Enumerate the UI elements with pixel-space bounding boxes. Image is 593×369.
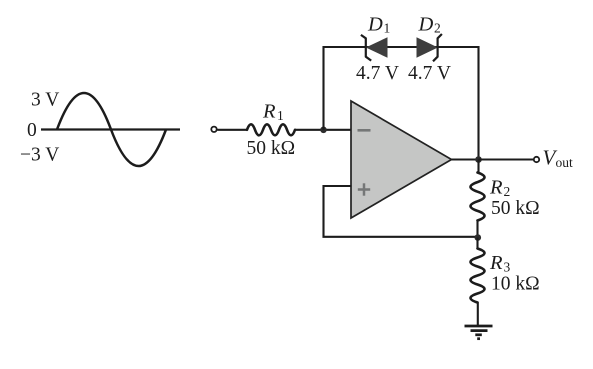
label 0 [27, 120, 37, 141]
label 4.7 V (D2) [408, 63, 451, 84]
input sine waveform axis [41, 128, 180, 130]
svg-text:−3 V: −3 V [20, 145, 59, 166]
svg-text:10 kΩ: 10 kΩ [491, 274, 540, 295]
svg-text:4.7 V: 4.7 V [408, 63, 451, 84]
svg-text:2: 2 [434, 21, 441, 36]
resistor R2 [471, 173, 485, 221]
svg-text:4.7 V: 4.7 V [356, 63, 399, 84]
resistor R1 [247, 124, 295, 135]
wire: op-amp output to output node [451, 158, 479, 160]
terminal Vout (open circle) [534, 157, 539, 162]
ground [465, 326, 493, 339]
label -3 V [20, 145, 59, 166]
svg-text:R: R [489, 252, 503, 274]
op-amp U1 triangle [351, 101, 452, 218]
wire: R2 to divider junction [476, 221, 478, 238]
diode D2 (zener, pointing right) triangle [417, 38, 437, 57]
wire: junction up to feedback loop [322, 46, 324, 130]
label R2 [489, 177, 510, 200]
resistor R3 [471, 249, 485, 303]
label R3 [489, 252, 511, 275]
svg-text:R: R [489, 177, 503, 199]
wire: output node down to R2 [477, 160, 479, 174]
svg-text:1: 1 [384, 21, 391, 36]
label R1 [262, 101, 284, 124]
diode D1 zener cathode bar [361, 35, 371, 61]
svg-text:D: D [367, 13, 383, 35]
label 4.7 V (D1) [356, 63, 399, 84]
wire: divider junction to R3 [476, 238, 478, 250]
wire: feedback loop right vertical down to output [477, 46, 479, 160]
wire: output node to Vout terminal [479, 158, 534, 160]
svg-text:50 kΩ: 50 kΩ [247, 138, 296, 159]
diode D2 zener cathode bar [433, 34, 442, 61]
label 50 kOhm (R1) [247, 138, 296, 159]
wire: R1 to op-amp inverting input [295, 129, 352, 131]
wire: non-inverting input feedback (left, down, right) [324, 186, 479, 237]
wire: R3 to ground [477, 303, 479, 327]
svg-text:D: D [418, 13, 434, 35]
svg-text:50 kΩ: 50 kΩ [491, 198, 540, 219]
wire: top feedback horizontal [323, 46, 480, 48]
op-amp inverting input symbol (minus) [358, 129, 371, 132]
input terminal (open circle) [211, 127, 216, 132]
label 50 kOhm (R2) [491, 198, 540, 219]
label D1 [367, 13, 390, 35]
svg-text:0: 0 [27, 120, 37, 141]
label D2 [418, 13, 441, 35]
svg-text:R: R [262, 101, 276, 123]
svg-text:2: 2 [504, 184, 511, 199]
node: output junction [475, 156, 482, 163]
diode D1 (zener, pointing left) triangle [367, 38, 387, 57]
wire: input terminal to R1 [217, 129, 247, 131]
label 10 kOhm (R3) [491, 274, 540, 295]
label 3 V [31, 90, 59, 111]
node: inverting input junction [320, 127, 327, 134]
input sine waveform curve [57, 93, 166, 166]
svg-text:3: 3 [504, 260, 511, 275]
label Vout [543, 146, 574, 170]
svg-text:3 V: 3 V [31, 90, 59, 111]
op-amp non-inverting input symbol (plus) [358, 183, 370, 195]
svg-text:out: out [556, 155, 574, 170]
node: R2/R3 divider junction [475, 234, 482, 241]
svg-text:1: 1 [277, 108, 284, 123]
